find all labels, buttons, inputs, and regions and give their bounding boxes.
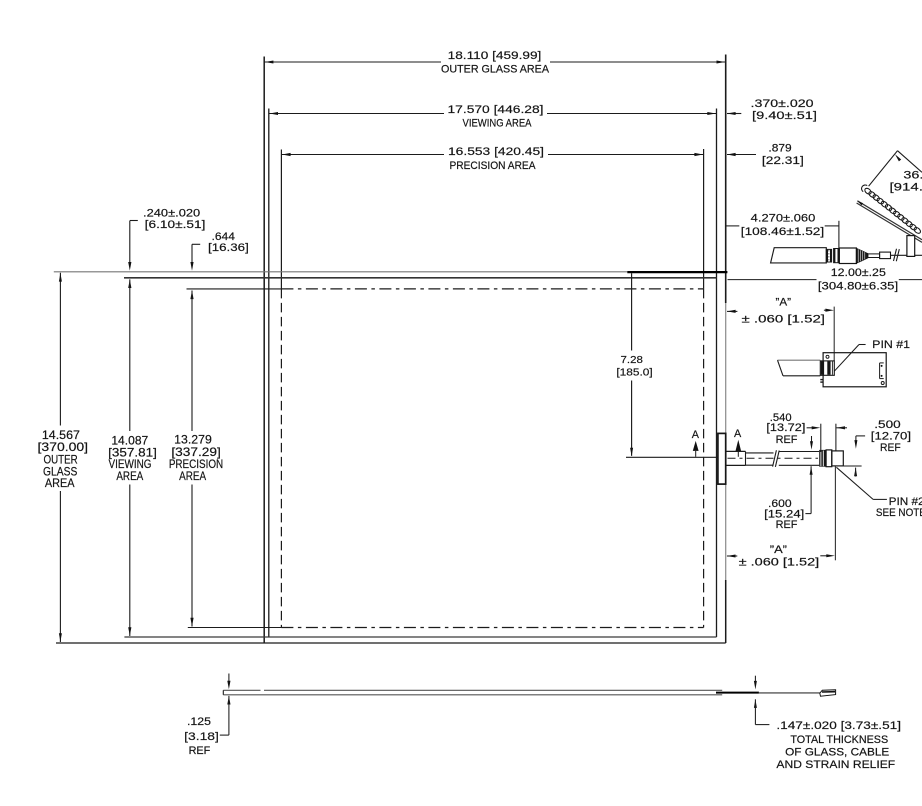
svg-text:OUTER: OUTER bbox=[44, 454, 78, 467]
svg-text:17.570 [446.28]: 17.570 [446.28] bbox=[448, 104, 544, 116]
svg-text:REF: REF bbox=[776, 519, 798, 531]
svg-text:13.279: 13.279 bbox=[174, 434, 212, 447]
svg-text:A: A bbox=[734, 428, 742, 440]
svg-text:[3.18]: [3.18] bbox=[184, 731, 219, 743]
svg-text:[12.70]: [12.70] bbox=[871, 430, 911, 442]
svg-text:SEE NOTE: SEE NOTE bbox=[876, 507, 922, 519]
svg-text:4.270±.060: 4.270±.060 bbox=[751, 213, 816, 225]
svg-text:[108.46±1.52]: [108.46±1.52] bbox=[741, 226, 824, 238]
svg-text:.644: .644 bbox=[212, 231, 235, 243]
svg-text:[22.31]: [22.31] bbox=[762, 155, 804, 167]
svg-text:[16.36]: [16.36] bbox=[208, 242, 249, 254]
svg-text:.500: .500 bbox=[874, 419, 900, 431]
svg-text:[304.80±6.35]: [304.80±6.35] bbox=[818, 280, 898, 292]
svg-text:AND STRAIN RELIEF: AND STRAIN RELIEF bbox=[776, 759, 895, 771]
svg-text:REF: REF bbox=[776, 434, 798, 446]
svg-text:18.110 [459.99]: 18.110 [459.99] bbox=[448, 50, 542, 62]
svg-text:VIEWING AREA: VIEWING AREA bbox=[463, 117, 533, 129]
svg-text:[185.0]: [185.0] bbox=[616, 367, 652, 378]
svg-text:REF: REF bbox=[189, 745, 211, 757]
svg-text:± .060 [1.52]: ± .060 [1.52] bbox=[742, 313, 826, 325]
svg-text:[370.00]: [370.00] bbox=[38, 441, 89, 454]
svg-text:AREA: AREA bbox=[45, 477, 75, 490]
svg-text:PRECISION AREA: PRECISION AREA bbox=[450, 160, 537, 172]
svg-text:[9.40±.51]: [9.40±.51] bbox=[752, 110, 817, 122]
svg-text:TOTAL THICKNESS: TOTAL THICKNESS bbox=[790, 734, 888, 746]
svg-text:OF GLASS, CABLE: OF GLASS, CABLE bbox=[785, 747, 889, 759]
svg-text:.240±.020: .240±.020 bbox=[143, 207, 200, 219]
svg-text:AREA: AREA bbox=[179, 470, 206, 483]
svg-text:”A”: ”A” bbox=[770, 544, 788, 556]
svg-text:A: A bbox=[692, 429, 700, 441]
svg-text:[914.4]: [914.4] bbox=[890, 182, 922, 194]
svg-text:36.0: 36.0 bbox=[903, 170, 922, 182]
svg-text:.125: .125 bbox=[187, 716, 211, 728]
svg-text:[6.10±.51]: [6.10±.51] bbox=[145, 219, 206, 231]
svg-text:AREA: AREA bbox=[116, 470, 143, 483]
svg-text:OUTER GLASS AREA: OUTER GLASS AREA bbox=[441, 63, 550, 75]
svg-text:.147±.020 [3.73±.51]: .147±.020 [3.73±.51] bbox=[776, 720, 901, 732]
svg-text:”A”: ”A” bbox=[776, 296, 792, 308]
svg-text:7.28: 7.28 bbox=[621, 355, 644, 366]
svg-text:PIN #1: PIN #1 bbox=[872, 339, 910, 351]
svg-text:12.00±.25: 12.00±.25 bbox=[831, 267, 886, 279]
svg-text:.370±.020: .370±.020 bbox=[751, 98, 814, 110]
svg-text:[13.72]: [13.72] bbox=[766, 422, 805, 434]
svg-text:± .060 [1.52]: ± .060 [1.52] bbox=[739, 557, 820, 569]
svg-text:.879: .879 bbox=[768, 143, 791, 155]
svg-text:16.553 [420.45]: 16.553 [420.45] bbox=[448, 146, 544, 158]
svg-text:REF: REF bbox=[880, 442, 901, 454]
